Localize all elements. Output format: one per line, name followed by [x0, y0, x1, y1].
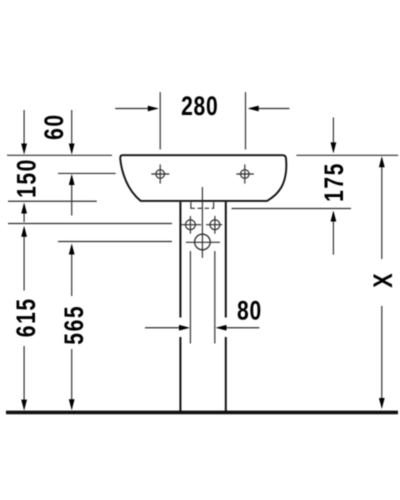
dimension 150 lower arrow — [23, 205, 25, 223]
pedestal left edge lower — [179, 337, 181, 411]
svg-text:280: 280 — [181, 92, 218, 122]
dimension 280 extension line left — [159, 92, 161, 149]
basin bottom reference line — [8, 200, 97, 202]
175 reference line — [232, 208, 352, 210]
dimension 80 left arrow — [145, 327, 188, 329]
dimension 280 extension line right — [245, 92, 247, 149]
dimension 80 right arrow — [218, 327, 260, 329]
dimension X lower segment — [381, 306, 383, 407]
drain hole circle — [195, 234, 211, 250]
pedestal right edge upper — [225, 202, 227, 318]
dimension X upper segment — [381, 158, 383, 259]
svg-text:80: 80 — [237, 296, 262, 326]
drain reference line — [58, 241, 172, 243]
svg-text:565: 565 — [60, 305, 90, 345]
drain hole crosshair horizontal — [186, 241, 220, 243]
svg-text:615: 615 — [12, 297, 42, 337]
wall hole reference line — [8, 223, 172, 225]
tap hole left crosshair — [151, 164, 169, 183]
drain pipe right line — [214, 251, 216, 344]
svg-text:150: 150 — [12, 158, 42, 198]
pedestal right edge lower — [225, 337, 227, 411]
dimension 565 lower segment — [71, 349, 73, 408]
rim reference line right — [296, 154, 398, 156]
drain pipe left line — [189, 251, 191, 344]
dimension 175 upper arrow — [332, 118, 334, 152]
dimension 280 left arrowhead — [148, 106, 159, 112]
drain centerline — [201, 187, 203, 258]
svg-text:175: 175 — [319, 162, 349, 202]
tap hole reference line — [58, 172, 116, 174]
dimension 280 line left arrow — [115, 108, 157, 110]
dimension 150 upper arrow — [23, 110, 25, 153]
basin outline — [120, 155, 286, 201]
dimension 60 upper arrow — [71, 110, 73, 153]
ground line — [6, 411, 398, 415]
wall fixing hole left — [181, 216, 201, 234]
svg-text:60: 60 — [39, 113, 69, 140]
dimension 615 upper segment — [23, 228, 25, 291]
dimension 615 lower segment — [23, 346, 25, 409]
dimension 280 right arrowhead — [248, 106, 259, 112]
svg-text:X: X — [369, 273, 399, 288]
dimension 280 line right arrow — [250, 108, 290, 110]
trap cover dashed outline — [190, 202, 214, 208]
pedestal left edge upper — [179, 202, 181, 318]
dimension 60 lower arrow — [71, 176, 73, 216]
dimension 565 upper segment — [71, 246, 73, 297]
dimension 175 lower arrow — [332, 213, 334, 255]
rim reference line left — [7, 154, 112, 156]
wall fixing hole right — [206, 216, 222, 234]
tap hole right crosshair — [236, 164, 254, 183]
